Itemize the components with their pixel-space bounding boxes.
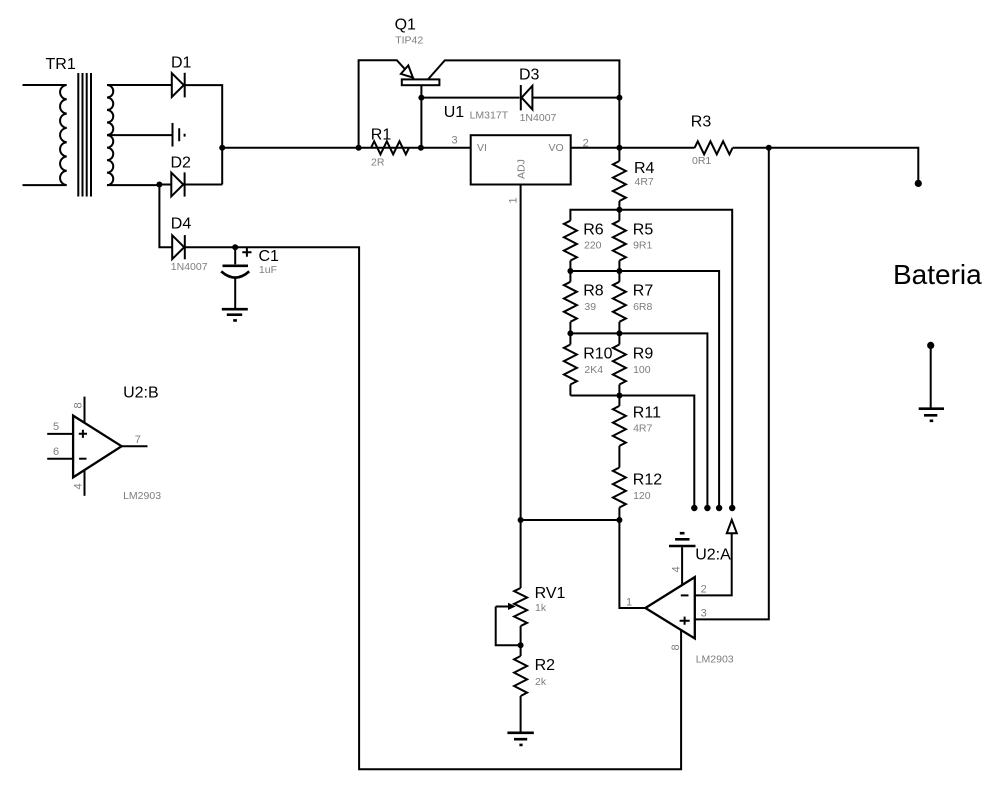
node RV1 bottom junction [518,642,524,648]
diode D4 [171,216,208,274]
wire R3 junction down to U2:A pin 3 [695,148,769,620]
op-amp U2:A [645,547,733,666]
svg-text:Q1: Q1 [395,17,416,34]
node tap2 end [716,505,722,511]
svg-text:C1: C1 [259,248,280,265]
RV1 wiper arrow [496,606,510,608]
svg-text:4R7: 4R7 [633,423,652,435]
svg-text:VO: VO [549,142,564,154]
svg-text:7: 7 [135,434,141,446]
svg-text:VI: VI [477,142,487,154]
svg-text:2R: 2R [371,156,385,168]
wire D2 anode down to D4 [159,185,172,248]
svg-text:D1: D1 [171,55,192,72]
TR1 primary winding [23,85,67,185]
node D2 anode junction [156,182,162,188]
TR1 core [78,73,91,197]
node VO column junction [616,145,622,151]
wire D1 cathode to output column [184,85,222,184]
TR1 secondary winding upper [107,85,113,135]
svg-text:8: 8 [670,644,682,650]
RV1 wiper return wire [496,607,521,646]
diode D3 [519,67,557,124]
svg-text:R10: R10 [583,346,612,363]
ground under R2 [507,733,533,745]
svg-text:2: 2 [701,584,707,596]
resistor R11 [613,396,661,468]
ground under C1 [222,309,248,320]
node rectifier output [219,145,225,151]
svg-text:1uF: 1uF [259,264,277,276]
wire U2:B pin 4 [84,470,86,496]
resistor R10 [564,333,613,395]
node battery negative terminal [927,342,934,349]
node R1 right / base junction [418,145,424,151]
wire row2 with tap 2 [570,271,719,508]
resistor R3 [691,114,733,168]
resistor R2 [514,656,555,696]
svg-text:R8: R8 [583,283,604,300]
potentiometer RV1 [496,585,566,645]
capacitor C1 [221,247,279,308]
svg-text:U1: U1 [444,104,465,121]
power flag (inverted ground) above U2:A pin 4 [669,545,696,548]
node base / D3 junction [418,95,424,101]
Q1 collector lead [428,60,619,147]
svg-text:3: 3 [452,135,458,147]
svg-text:U2:A: U2:A [695,547,731,564]
node row3 left [567,330,573,336]
wire R3 right to battery positive [733,148,919,183]
svg-text:4: 4 [671,566,683,572]
svg-text:R2: R2 [535,657,556,674]
svg-text:8: 8 [73,402,85,408]
wire battery negative lead [930,345,932,407]
op-amp U2:B [73,385,161,503]
node row5 right (R12 bottom) [616,517,622,523]
svg-text:3: 3 [701,608,707,620]
svg-text:1: 1 [626,597,632,609]
svg-text:1N4007: 1N4007 [171,261,208,273]
wire U2:B pin 5 [47,433,73,435]
wire secondary center tap lead [107,134,172,136]
wire R12 bottom down to U2:A output [619,520,645,608]
node D3 right / collector column [616,95,622,101]
wire U1 ADJ down to row junction and RV1 [520,185,522,589]
wire Q1 emitter branch (up from rail, top-left) [359,60,414,148]
wire RV1 to R2 [520,626,522,656]
wire secondary bottom lead [107,184,159,186]
resistor R5 [613,210,653,271]
U2:B plus input mark [79,430,87,438]
node row1 junction [616,207,622,213]
resistor R12 [613,468,662,521]
transistor Q1 [395,17,620,148]
svg-text:TR1: TR1 [46,56,76,73]
svg-text:R7: R7 [633,283,654,300]
node tap4 end [691,505,697,511]
node row3 right [616,330,622,336]
ground center tap (rotated) [173,123,185,147]
U2:B minus input mark [79,458,86,460]
wire U2:B pin 7 (output) [122,445,148,447]
wire U2:B pin 6 [47,458,73,460]
svg-text:4: 4 [73,483,85,489]
transformer TR1 [23,56,185,197]
svg-text:100: 100 [633,364,651,376]
wire D3 row left [421,97,519,99]
wire row4 left [570,395,619,397]
wire row1 right tap 1 [619,210,732,508]
svg-text:2K4: 2K4 [584,364,603,376]
node R1 left junction [356,145,362,151]
svg-text:1: 1 [508,197,520,203]
svg-text:LM2903: LM2903 [696,654,734,666]
TR1 secondary winding lower [107,135,113,185]
svg-text:R5: R5 [633,221,654,238]
U2:A plus input mark [680,617,690,625]
svg-text:220: 220 [584,240,602,252]
node row2 right [616,268,622,274]
svg-text:1k: 1k [535,602,547,614]
regulator U1 [444,104,571,185]
svg-text:6R8: 6R8 [633,301,652,313]
node row5 left (ADJ line) [518,517,524,523]
wire D2 cathode to column [183,184,222,186]
wire main rail left (rectifier to U1 VI) [222,147,471,149]
wire row4 right tap 4 [619,396,694,509]
Q1 emitter arrow [401,65,413,77]
svg-text:D2: D2 [171,155,192,172]
ground battery negative [919,409,944,421]
U2:A minus input mark [681,594,689,596]
svg-text:R3: R3 [691,114,712,131]
diode D1 [171,55,192,98]
svg-text:R12: R12 [633,472,662,489]
wire U1 VO to output column [571,147,695,149]
wire R2 to ground [520,696,522,732]
resistor R4 [613,148,655,210]
svg-text:5: 5 [53,421,59,433]
node tap1 end [729,505,735,511]
svg-text:R11: R11 [633,404,661,421]
svg-text:RV1: RV1 [535,585,566,602]
svg-text:R9: R9 [633,346,654,363]
svg-text:120: 120 [633,490,651,502]
svg-text:U2:B: U2:B [123,385,159,402]
svg-text:D3: D3 [519,67,540,84]
wire D4 cathode rail, bottom-left vertical, bottom rail to U2 pin 8 [184,247,681,769]
node battery positive terminal [915,180,922,187]
wire row1 left branch to R6 [570,210,619,221]
svg-text:9R1: 9R1 [633,240,652,252]
svg-text:TIP42: TIP42 [395,35,423,47]
resistor R7 [613,271,653,333]
svg-text:D4: D4 [171,216,192,233]
wire row5 [521,519,620,521]
svg-text:Bateria: Bateria [893,259,982,290]
svg-text:R6: R6 [583,221,604,238]
node tap3 end [704,505,710,511]
resistor R1 [371,127,409,169]
Q1 base bar [402,79,440,85]
node row4 junction [616,393,622,399]
Q1 base lead [420,85,422,148]
resistor R8 [564,271,604,333]
svg-text:6: 6 [53,446,59,458]
node C1 top [232,244,238,250]
wire D2 anode lead [159,184,171,186]
svg-text:0R1: 0R1 [692,155,711,167]
node row2 left [567,268,573,274]
svg-text:39: 39 [584,301,596,313]
selector arrow (open, pointing up at taps) [727,520,737,533]
resistor R9 [613,333,653,395]
wire secondary top lead [107,84,172,86]
svg-text:1N4007: 1N4007 [520,112,557,124]
svg-text:LM2903: LM2903 [123,490,161,502]
svg-text:4R7: 4R7 [635,176,654,188]
wire U2:A pin 2 to selector arrow [695,533,732,595]
wire D3 anode to collector column [532,97,619,99]
svg-text:2k: 2k [535,676,547,688]
svg-text:ADJ: ADJ [516,159,528,179]
svg-text:R4: R4 [634,160,655,177]
wire row3 with tap 3 [570,333,707,508]
diode D2 [171,155,192,197]
svg-text:LM317T: LM317T [470,110,509,122]
node R3 output junction [766,145,772,151]
wire U2:A pin 4 [681,547,683,586]
wire U2:B pin 8 [84,397,86,423]
resistor R6 [564,221,604,271]
